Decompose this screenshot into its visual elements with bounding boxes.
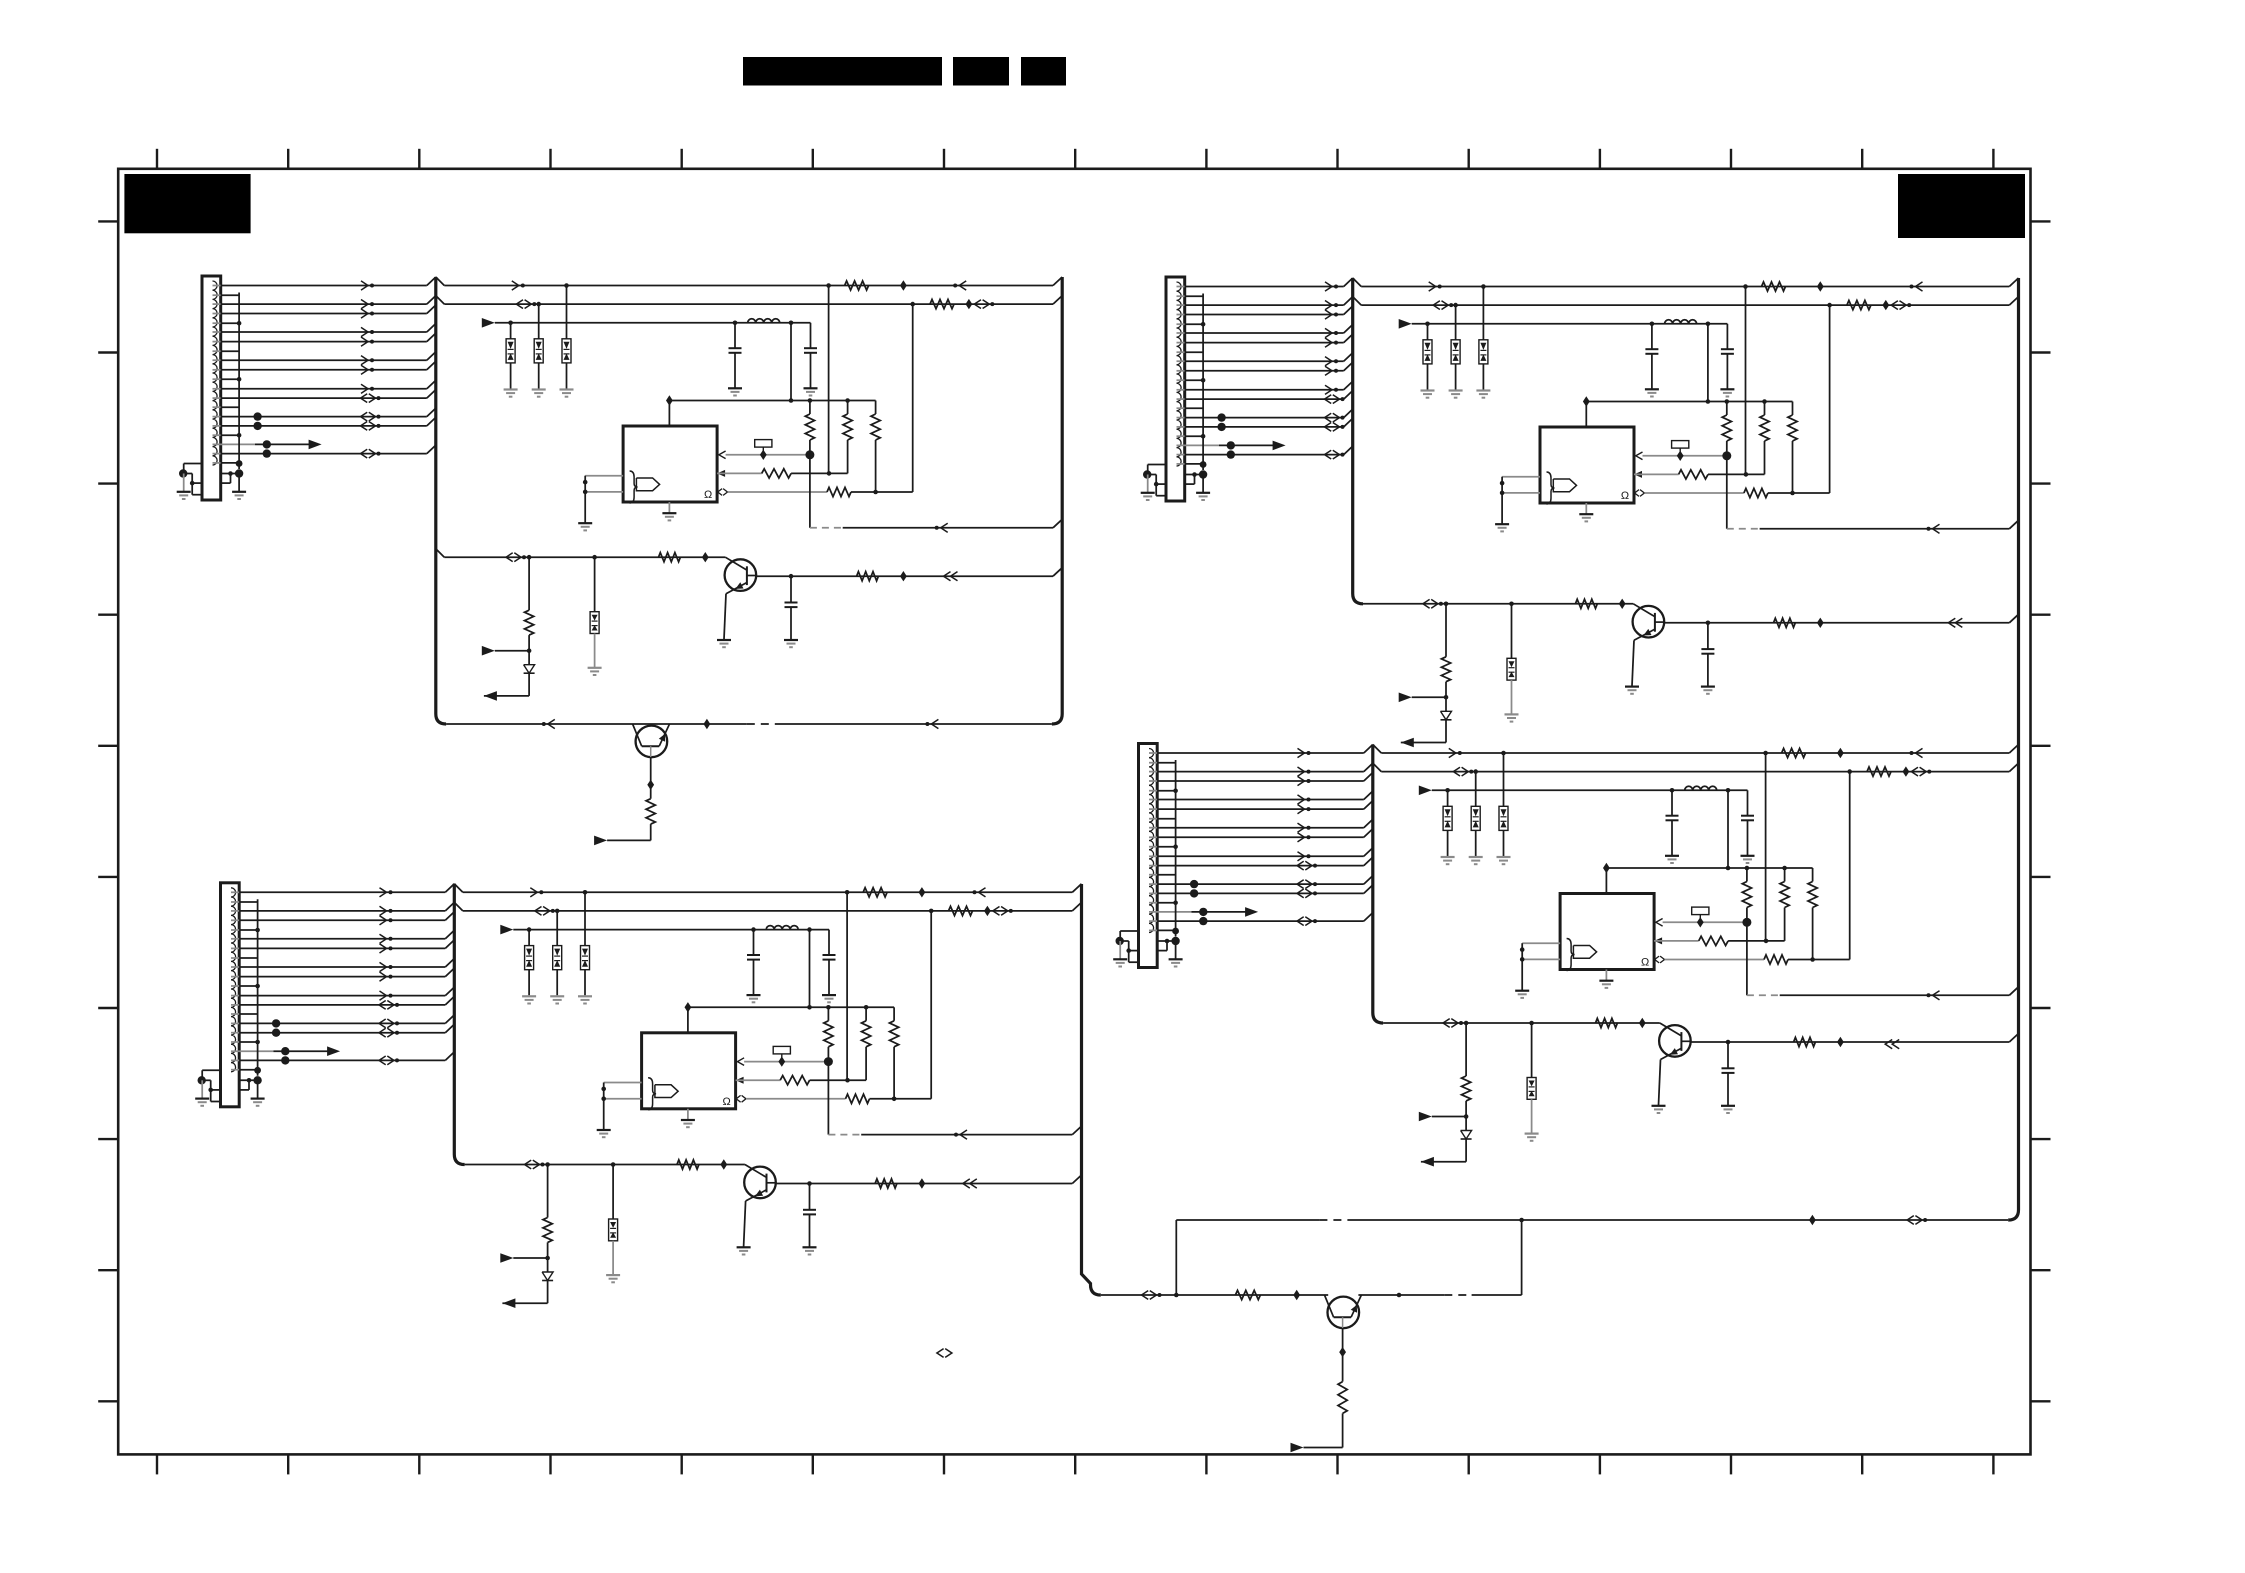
arrowhead row 10 A: [361, 412, 368, 421]
wire pin row 5 A: [213, 341, 221, 343]
junction stub B: [1201, 378, 1206, 383]
ground GEC: [737, 1247, 751, 1254]
junction row1 diode B: [1481, 284, 1486, 289]
resistor RV2B: [1760, 415, 1769, 441]
arrowhead rail1 A: [548, 719, 555, 728]
wire net row2 D: [1373, 763, 1382, 772]
wire c2 gnd D: [1747, 820, 1749, 855]
ground GU2B: [1579, 514, 1593, 521]
wire vcc rail A: [669, 400, 875, 402]
node TPB: [1227, 441, 1235, 449]
wire rv2a B: [1764, 402, 1766, 416]
capacitor C1D: [1666, 790, 1679, 820]
wire stub pin 3 D: [1149, 846, 1157, 848]
marker row2 D: [1903, 766, 1910, 776]
arrowhead row2LR D: [1911, 767, 1918, 776]
arrowhead row 13 C: [379, 1056, 386, 1065]
wire stub bus D: [1175, 760, 1177, 937]
junction vccrail A: [808, 398, 813, 403]
junction cap1 D: [1670, 788, 1675, 793]
junction q2line D: [1174, 1293, 1179, 1298]
resistor coll B: [1774, 618, 1796, 627]
ground GC2B: [1720, 389, 1734, 396]
arrowhead row 8 A: [361, 384, 368, 393]
arrow out B: [1273, 441, 1286, 451]
wire collector D: [1691, 1041, 2009, 1043]
wire rail D: [1176, 1219, 1319, 1221]
ground GC1A: [728, 388, 742, 395]
resistor q2 A: [646, 799, 655, 824]
arrow out D: [1245, 907, 1258, 917]
resistor row1 C: [863, 888, 887, 897]
node dot row 10 B: [1217, 413, 1225, 421]
wire gnd left D: [1120, 930, 1138, 932]
ground GD1C: [522, 996, 536, 1003]
junction row2 diode B: [1453, 303, 1458, 308]
arrowhead tline D: [1443, 1019, 1450, 1028]
wire gnd left C: [202, 1069, 220, 1071]
arrowhead row 8 B: [1325, 385, 1332, 394]
junction coll cap D: [1726, 1040, 1731, 1045]
junction stub C: [255, 984, 260, 989]
ground GU1D: [1515, 991, 1529, 998]
bus C: [454, 884, 464, 1165]
junction step A: [190, 481, 195, 486]
wire return dash D: [1747, 994, 1780, 996]
node dot row 11 D: [1190, 889, 1198, 897]
wire UC vcc: [687, 1007, 689, 1033]
wire stub pin 4 C: [231, 1013, 239, 1015]
wire rv1b C: [827, 1047, 829, 1062]
resistor coll D: [1794, 1037, 1816, 1046]
wire pin row 11 A: [213, 425, 221, 427]
ground GEA: [717, 640, 731, 647]
wire pin row 3 B: [1177, 314, 1185, 316]
wire UC gndpin: [687, 1109, 689, 1120]
wire pin row 2 B: [1177, 304, 1185, 306]
wire pin row 11 C: [231, 1032, 239, 1034]
wire UA vcc: [668, 401, 670, 427]
diode pack Dp B: [1507, 658, 1516, 680]
inductor L1C: [766, 926, 798, 930]
wire stub pin 1 B: [1177, 323, 1185, 325]
wire pin row 7 D: [1149, 836, 1157, 838]
junction p1 A: [805, 450, 814, 459]
wire supply B: [1412, 323, 1728, 325]
wire return vert D: [1746, 922, 1748, 995]
resistor row2 D: [1867, 767, 1891, 776]
border frame: [118, 169, 2030, 1455]
diode pack D3A: [562, 339, 571, 363]
marker rail D: [1809, 1215, 1816, 1225]
ground GD2C: [550, 996, 564, 1003]
arrowhead row 10 B: [1325, 413, 1332, 422]
junction row1 diode A: [564, 283, 569, 288]
wire pin row 3 A: [213, 313, 221, 315]
node dot row 13 C: [281, 1056, 289, 1064]
arrow supply D: [1419, 786, 1432, 796]
resistor Rp2 B: [1679, 470, 1708, 479]
wire diode2 C: [556, 911, 558, 946]
wire rv1a A: [809, 401, 811, 415]
node dot row 11 B: [1217, 423, 1225, 431]
wire pin row 8 C: [231, 995, 239, 997]
wire stub pin 5 C: [231, 1041, 239, 1043]
diode pack D1C: [525, 946, 534, 970]
tick marks left/right: [98, 221, 2050, 1401]
diode pack Dp C: [609, 1219, 618, 1241]
resistor q2line D: [1235, 1290, 1260, 1299]
inductor L1A: [748, 319, 780, 323]
wire net row1 D: [1373, 745, 1382, 754]
arrowhead row 13 B: [1325, 450, 1332, 459]
wire stub pin 6 C: [231, 1069, 239, 1071]
junction step D: [1126, 948, 1131, 953]
wire pin row 6 D: [1149, 827, 1157, 829]
wire UA p2a: [717, 472, 762, 474]
junction row2 diode A: [536, 302, 541, 307]
resistor RV2C: [862, 1021, 871, 1047]
wire pin row 4 C: [231, 938, 239, 940]
transistor Q1D: [1659, 1023, 1691, 1060]
pin omega arrows D: [1655, 956, 1659, 963]
arrowhead return D: [1933, 991, 1940, 1000]
resistor row1 B: [1762, 282, 1786, 291]
diode pack D2C: [553, 946, 562, 970]
ground GD1B: [1421, 391, 1435, 398]
svg-text:Ω: Ω: [1621, 490, 1629, 502]
wire stub pin 0 B: [1177, 295, 1185, 297]
wire rv2a A: [847, 401, 849, 415]
wire UC p1: [744, 1061, 828, 1063]
ground GB2B: [1505, 714, 1519, 721]
wire r2col B: [1764, 441, 1766, 474]
arrowhead row1r B: [1429, 282, 1436, 291]
wire gnd stem A: [183, 474, 185, 492]
junction vccrail D: [1745, 866, 1750, 871]
arrowhead collA: [944, 572, 951, 581]
arrowhead row 6 B: [1325, 357, 1332, 366]
ground GU1A: [578, 523, 592, 530]
wire pin row 10 B: [1177, 417, 1185, 419]
resistor br1 D: [1462, 1076, 1471, 1101]
junction p3 B: [1790, 491, 1795, 496]
wire UB vcc: [1585, 402, 1587, 428]
junction tl2 D: [1529, 1021, 1534, 1026]
junction coll cap C: [807, 1181, 812, 1186]
junction step2 C: [247, 1078, 252, 1083]
arrowhead tline A: [506, 553, 513, 562]
arrowhead return B: [1933, 524, 1940, 533]
ground GC1D: [1665, 856, 1679, 863]
junction tl1 C: [545, 1162, 550, 1167]
ground GD1A: [504, 390, 518, 397]
pin omega arrows B: [1635, 490, 1639, 497]
pin arrow B: [1634, 471, 1642, 478]
wire tline A: [436, 549, 445, 558]
wire gnd left A: [184, 463, 202, 465]
ground GD3A: [560, 390, 574, 397]
bus B: [1353, 278, 1363, 604]
wire UA p3b: [851, 491, 913, 493]
wire pin row 11 D: [1149, 892, 1157, 894]
wire UD p2a: [1654, 940, 1699, 942]
arrowhead row 4 B: [1325, 328, 1332, 337]
marker vcc B: [1583, 396, 1590, 406]
arrowhead return A: [941, 523, 948, 532]
junction vccrail C: [864, 1005, 869, 1010]
wire rv2a D: [1784, 868, 1786, 882]
junction row1 vert B: [1743, 284, 1748, 289]
junction p3 C: [892, 1097, 897, 1102]
wire pin row 6 C: [231, 966, 239, 968]
junction in2 A: [583, 490, 588, 495]
wire pin row 7 B: [1177, 370, 1185, 372]
arrow out C: [327, 1046, 340, 1056]
junction gnd B: [1143, 470, 1151, 478]
node TPD: [1199, 908, 1207, 916]
wire step right A: [221, 473, 239, 475]
wire pin row 6 A: [213, 359, 221, 361]
wire stub pin 6 B: [1177, 463, 1185, 465]
wire br1d C: [547, 1281, 549, 1304]
arrowhead row2LR B: [1891, 301, 1898, 310]
arrowhead row 7 B: [1325, 366, 1332, 375]
diode pack D3C: [581, 946, 590, 970]
ground GD2A: [532, 390, 546, 397]
wire UD in2: [1522, 958, 1560, 960]
junction vccrail B: [1706, 399, 1711, 404]
resistor base C: [677, 1160, 699, 1169]
wire br2a C: [612, 1165, 614, 1220]
junction stub A: [237, 321, 242, 326]
node dot row 13 A: [263, 449, 271, 457]
wire diode1 A: [510, 323, 512, 339]
wire pin row 9 C: [231, 1004, 239, 1006]
pin arrow C: [736, 1077, 744, 1084]
wire br2a A: [594, 557, 596, 612]
transistor Q1C: [744, 1165, 776, 1202]
pin tri A: [719, 451, 726, 459]
resistor RV1D: [1742, 882, 1751, 908]
wire UB in2: [1502, 492, 1540, 494]
wire br1c C: [513, 1257, 547, 1259]
ground GU1C: [597, 1130, 611, 1137]
wire c1 gnd A: [734, 353, 736, 388]
wire coilend down C: [809, 930, 811, 1008]
wire UC inv: [603, 1083, 605, 1130]
wire stub pin 6 D: [1149, 929, 1157, 931]
arrowhead row 2 C: [380, 906, 387, 915]
marker vcc C: [685, 1002, 692, 1012]
ground GD2B: [1449, 391, 1463, 398]
wire c2 gnd B: [1726, 354, 1728, 389]
wire q2 stem A: [650, 757, 652, 799]
arrowhead row 1 A: [361, 281, 368, 290]
symbol XD: [1692, 907, 1709, 927]
ground GU2C: [681, 1120, 695, 1127]
wire pin row 4 A: [213, 331, 221, 333]
arrowhead tline C: [525, 1160, 532, 1169]
junction coll cap A: [789, 574, 794, 579]
wire UB p3a: [1644, 492, 1744, 494]
wire br1a B: [1445, 604, 1447, 657]
junction sv2 C: [253, 1076, 261, 1084]
junction stub C: [255, 1040, 260, 1045]
pin tri D: [1656, 919, 1663, 927]
wire pin row 12 A: [213, 443, 256, 445]
arrowhead row 6 A: [361, 356, 368, 365]
resistor RV2D: [1780, 882, 1789, 908]
wire gnd stem B: [1147, 475, 1149, 493]
wire UD p2b: [1728, 940, 1785, 942]
wire diode2 B: [1455, 305, 1457, 340]
resistor br1 A: [525, 610, 534, 635]
wire cc gnd D: [1727, 1073, 1729, 1105]
arrowhead row 1 C: [380, 888, 387, 897]
wire c1 gnd B: [1651, 354, 1653, 389]
wire UC in1: [604, 1082, 642, 1084]
bus right BD: [2008, 278, 2018, 1220]
IC UD: [1560, 894, 1654, 971]
node dot row 13 B: [1227, 450, 1235, 458]
wire br1b A: [528, 635, 530, 665]
marker row2 C: [984, 906, 991, 916]
wire pin row 5 C: [231, 947, 239, 949]
junction coilend A: [789, 321, 794, 326]
marker coll A: [900, 571, 907, 581]
capacitor C1B: [1645, 324, 1658, 354]
wire emitter C: [744, 1201, 746, 1247]
marker base A: [702, 552, 709, 562]
arrow br1 out C: [502, 1298, 515, 1308]
ground GRD: [1169, 959, 1183, 966]
marker q2line D: [1293, 1290, 1300, 1300]
tick marks top/bottom: [157, 149, 1993, 1475]
ground GD1D: [1441, 857, 1455, 864]
marker coll C: [919, 1178, 926, 1188]
marker q2 D: [1339, 1347, 1346, 1357]
wire row2 down C: [930, 911, 932, 1099]
resistor Rp2 A: [762, 469, 791, 478]
junction d1 B: [1425, 322, 1430, 327]
wire c2 gnd C: [828, 960, 830, 995]
wire stub bus C: [257, 899, 259, 1076]
junction vccrail D: [1782, 866, 1787, 871]
wire UA p1: [726, 454, 810, 456]
symbol XA: [755, 440, 772, 460]
wire pin row 1 B: [1177, 286, 1185, 288]
arrowhead tline B: [1423, 599, 1430, 608]
arrowhead row 5 C: [380, 944, 387, 953]
junction p2 B: [1744, 472, 1749, 477]
wire br2b B: [1511, 680, 1513, 714]
arrowhead row 8 D: [1298, 852, 1305, 861]
resistor row1 A: [845, 281, 869, 290]
junction vccrail C: [807, 1005, 812, 1010]
diode Dz B: [1441, 711, 1452, 720]
wire stub pin 6 A: [213, 462, 221, 464]
wire r2col D: [1784, 908, 1786, 941]
junction cap1 B: [1650, 322, 1655, 327]
wire rv3a B: [1792, 402, 1794, 416]
arrowhead row 2 A: [361, 300, 368, 309]
arrowhead row 4 A: [361, 327, 368, 336]
diode pack D3B: [1479, 340, 1488, 364]
wire br2b D: [1531, 1099, 1533, 1133]
wire q2 stem D: [1342, 1328, 1344, 1382]
wire r3col C: [893, 1047, 895, 1099]
wire net row2 A: [436, 296, 445, 305]
wire cc gnd B: [1707, 654, 1709, 686]
arrowhead row 9 D: [1297, 861, 1304, 870]
arrow br1 B: [1399, 693, 1412, 703]
junction row1 diode C: [583, 890, 588, 895]
wire UC p2b: [810, 1079, 867, 1081]
wire diode1 B: [1427, 324, 1429, 340]
resistor Rp2 C: [780, 1076, 809, 1085]
junction p1 C: [824, 1057, 833, 1066]
arrowhead row2LR A: [974, 300, 981, 309]
wire rv1a B: [1726, 402, 1728, 416]
wire pin row 12 C: [231, 1050, 274, 1052]
junction stub D: [1173, 900, 1178, 905]
wire pin row 11 B: [1177, 426, 1185, 428]
junction row2 diode C: [555, 909, 560, 914]
arrow br1 A: [482, 646, 495, 656]
wire emitter B: [1632, 640, 1634, 686]
svg-text:Ω: Ω: [1641, 957, 1649, 969]
transistor Q2D: [1325, 1295, 1362, 1328]
wire net row1 B: [1353, 278, 1362, 287]
resistor Rp3 A: [827, 487, 851, 496]
wire step right D: [1157, 940, 1175, 942]
junction p3 A: [873, 490, 878, 495]
diode Dz D: [1461, 1131, 1472, 1140]
wire return dash C: [828, 1134, 861, 1136]
wire br2a D: [1531, 1023, 1533, 1078]
wire stub pin 4 B: [1177, 407, 1185, 409]
wire emitter D: [1659, 1060, 1661, 1106]
wire rv1b D: [1746, 908, 1748, 923]
wire q2line up2 D: [1521, 1220, 1523, 1295]
junction tl2 B: [1509, 602, 1514, 607]
wire sv gnd A: [238, 474, 240, 492]
IC UB: [1540, 427, 1634, 504]
ground GLB: [1141, 493, 1155, 500]
pin tri C: [737, 1058, 744, 1066]
wire stub pin 3 C: [231, 985, 239, 987]
wire pin row 13 B: [1177, 454, 1185, 456]
pin arrow D: [1654, 937, 1662, 944]
junction in2 B: [1500, 491, 1505, 496]
wire br1c D: [1432, 1116, 1466, 1118]
marker vcc A: [666, 395, 673, 405]
wire UD gndpin: [1605, 970, 1607, 981]
wire return dash A: [810, 527, 843, 529]
resistor RV1A: [805, 414, 814, 440]
marker q2 A: [647, 780, 654, 790]
pin omega arrows A: [718, 489, 722, 496]
wire pin row 5 B: [1177, 342, 1185, 344]
wire UB p3b: [1768, 492, 1830, 494]
diode pack D1D: [1443, 806, 1452, 830]
marker row1 A: [900, 280, 907, 290]
junction in2 C: [601, 1096, 606, 1101]
svg-text:Ω: Ω: [704, 489, 712, 501]
wire return D: [1780, 994, 2010, 996]
wire row1 down A: [828, 286, 830, 474]
